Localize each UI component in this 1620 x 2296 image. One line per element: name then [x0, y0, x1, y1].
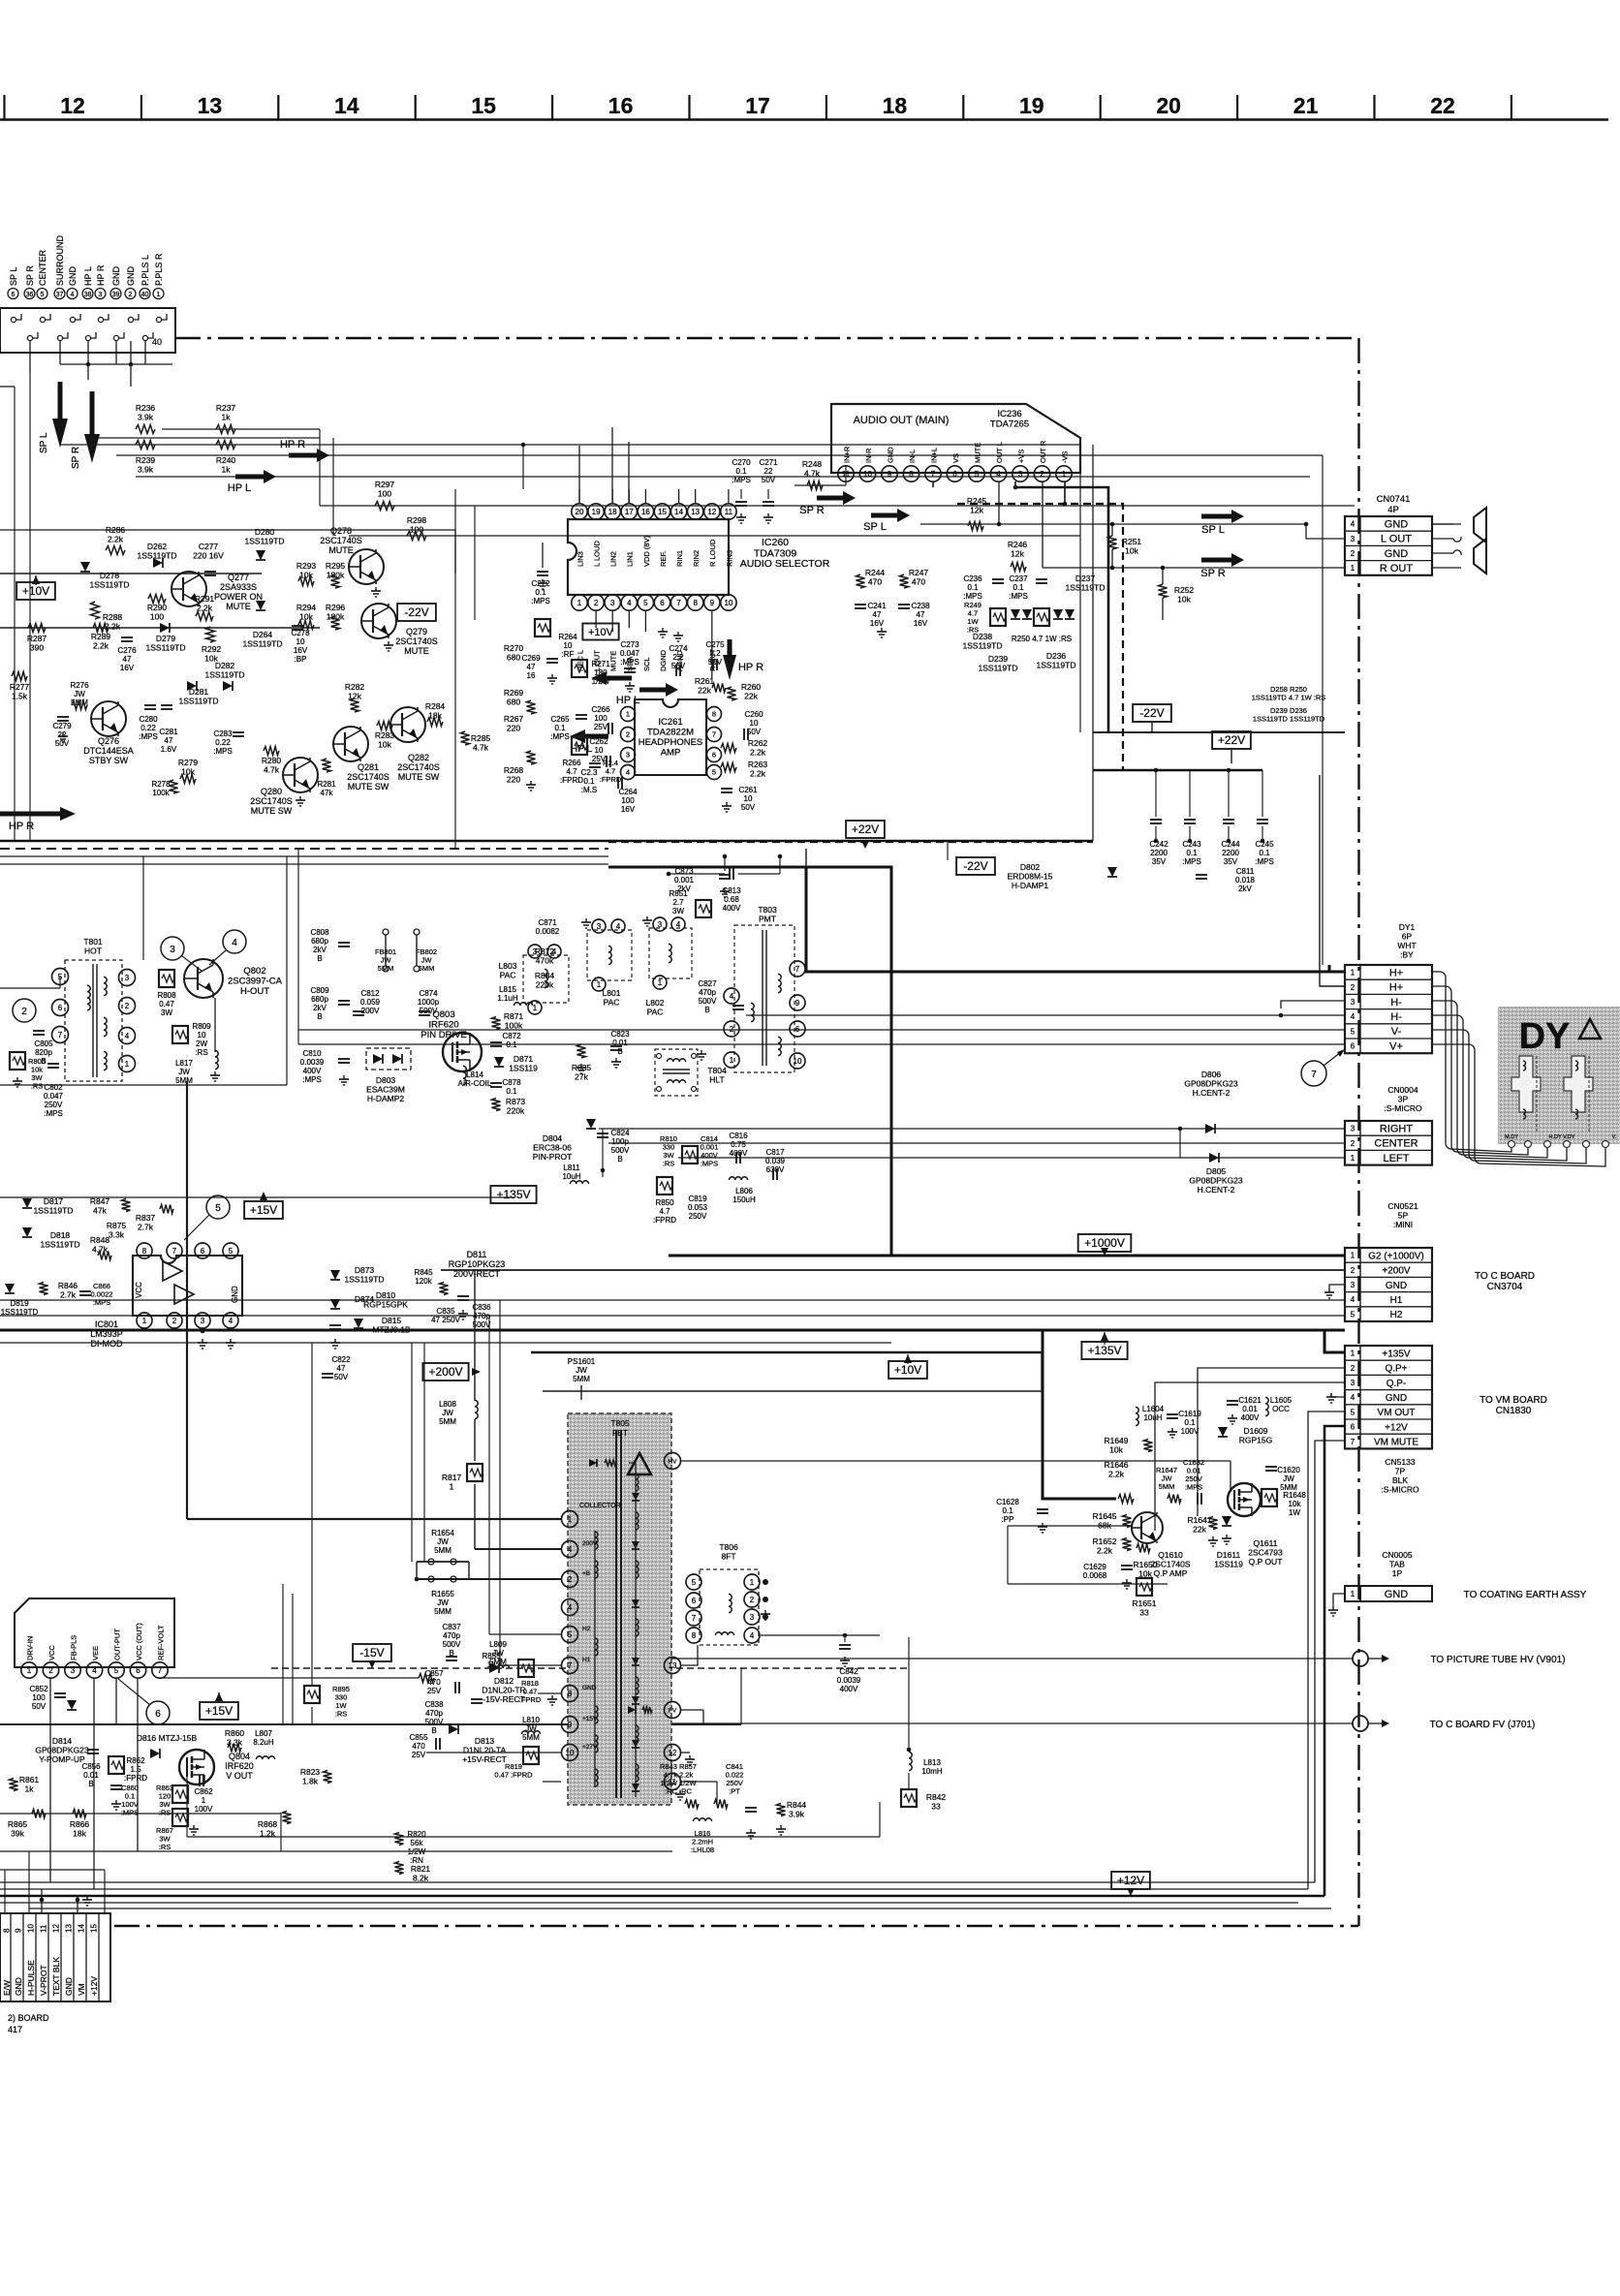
svg-text:7: 7: [931, 470, 936, 479]
svg-text:4: 4: [1351, 1393, 1355, 1402]
svg-text:HP L: HP L: [83, 266, 93, 286]
svg-text:-22V: -22V: [963, 859, 987, 873]
svg-text:R8231.8k: R8231.8k: [300, 1767, 321, 1786]
svg-text:COLLECTOR: COLLECTOR: [579, 1503, 621, 1509]
svg-text:H-PULSE: H-PULSE: [26, 1960, 36, 1996]
svg-text:6: 6: [136, 1666, 140, 1675]
transistor Q279 2SC1740S MUTE: [361, 604, 396, 638]
svg-text:R2854.7k: R2854.7k: [471, 733, 491, 753]
svg-text:1: 1: [626, 710, 630, 719]
wire H+ pin2 hook: [1320, 775, 1345, 986]
svg-text:SP R: SP R: [1200, 568, 1226, 579]
svg-text:2: 2: [1351, 1364, 1355, 1373]
svg-text:8: 8: [568, 1690, 573, 1698]
svg-text:CENTER: CENTER: [1374, 1138, 1417, 1150]
svg-text:1: 1: [533, 1004, 538, 1012]
T806 BFT: [700, 1569, 759, 1645]
svg-text:H-: H-: [1390, 997, 1402, 1008]
svg-text:7: 7: [676, 599, 681, 607]
svg-text:18: 18: [883, 93, 908, 118]
ruler scale bar: [0, 118, 1608, 121]
svg-text:GND: GND: [68, 266, 78, 287]
svg-text:2: 2: [594, 599, 599, 607]
svg-text:LIN1: LIN1: [626, 551, 635, 567]
svg-text:1: 1: [1351, 1590, 1355, 1598]
svg-text:3: 3: [750, 1613, 755, 1622]
wire Q804 area lines: [0, 1850, 672, 1852]
svg-text:+VS: +VS: [1016, 450, 1025, 463]
node 3 circled: [161, 937, 184, 960]
svg-text:C2800.22:MPS: C2800.22:MPS: [139, 715, 158, 741]
svg-text:C8710.0082: C8710.0082: [536, 918, 560, 936]
svg-text:GND: GND: [14, 1977, 23, 1996]
HP arrows left of IC261: [591, 671, 607, 685]
svg-text:1: 1: [1351, 1154, 1355, 1163]
svg-text:9: 9: [888, 470, 892, 479]
diode D279: [160, 623, 170, 633]
svg-text:15: 15: [90, 1924, 99, 1933]
svg-text:1: 1: [730, 1056, 734, 1065]
svg-text:SP R: SP R: [71, 447, 81, 469]
wire HP bus risers: [319, 429, 321, 506]
svg-text:5: 5: [975, 470, 980, 479]
svg-text:13: 13: [198, 93, 223, 118]
resistor R262: [721, 744, 736, 753]
svg-text:4: 4: [71, 292, 75, 298]
node -22V top: [397, 604, 436, 621]
SP R arrow at IC236: [817, 496, 846, 501]
svg-text:L8078.2uH: L8078.2uH: [253, 1729, 274, 1747]
wire V-OUT pin drops: [49, 1679, 51, 1882]
node -22V mid-right: [1133, 704, 1171, 722]
resistor R236: [136, 425, 155, 434]
wire SP bus lines: [92, 437, 320, 439]
svg-text:2: 2: [21, 1007, 27, 1017]
svg-text:8: 8: [909, 470, 914, 479]
svg-text:40: 40: [141, 292, 149, 298]
SP L arrow at IC236: [871, 513, 900, 518]
svg-text:6: 6: [201, 1247, 205, 1256]
svg-text:7: 7: [1351, 1438, 1355, 1446]
resistor R808: [159, 970, 174, 987]
svg-text:8: 8: [693, 599, 698, 607]
svg-text:5: 5: [692, 1578, 697, 1587]
wire +15V rail: [0, 1723, 741, 1725]
svg-text:AUDIO SELECTOR: AUDIO SELECTOR: [740, 558, 830, 570]
svg-text:5: 5: [41, 292, 45, 298]
svg-text:RIGHT: RIGHT: [1380, 1123, 1414, 1134]
speaker right: [1432, 552, 1453, 554]
svg-text:-22V: -22V: [1139, 706, 1164, 720]
HP L arrow IC260: [639, 688, 669, 693]
svg-text:HP R: HP R: [738, 662, 763, 673]
svg-text:LIN3: LIN3: [576, 551, 584, 567]
svg-text:REF-VOLT: REF-VOLT: [156, 1625, 165, 1660]
HP L arrow mid: [235, 475, 266, 480]
svg-text:4: 4: [1351, 520, 1355, 529]
svg-text:GND: GND: [1385, 548, 1409, 560]
svg-text:SCL: SCL: [642, 657, 651, 671]
wire +200V line: [441, 1269, 1345, 1271]
resistor R240: [216, 441, 235, 450]
resistor R862: [109, 1756, 124, 1774]
svg-text:4: 4: [552, 947, 557, 956]
svg-text:C2730.047:MPS: C2730.047:MPS: [620, 640, 640, 667]
svg-text:AUDIO OUT (MAIN): AUDIO OUT (MAIN): [854, 415, 950, 426]
transformer T801 HOT: [65, 960, 122, 1081]
svg-text:1: 1: [1351, 564, 1355, 573]
capacitor C242: [1150, 819, 1162, 821]
svg-text:C8660.0022:MPS: C8660.0022:MPS: [91, 1282, 113, 1307]
resistor R287: [28, 624, 46, 633]
wire V+ pin6: [298, 1043, 1345, 1045]
svg-text:Q.P+: Q.P+: [1385, 1364, 1407, 1375]
svg-text:H2: H2: [582, 1626, 591, 1632]
resistor R237: [216, 425, 235, 434]
svg-text:D1609RGP15G: D1609RGP15G: [1239, 1426, 1273, 1445]
capacitor C280 C281: [144, 704, 156, 706]
wire IC260 feed left: [91, 438, 93, 445]
ground CN0005: [1333, 1594, 1345, 1606]
wire T805 pin connections: [187, 1518, 561, 1520]
svg-text:3: 3: [658, 920, 663, 929]
capacitor C272: [537, 571, 548, 573]
svg-text:+12V: +12V: [1117, 1874, 1144, 1887]
wire verticals left deflect: [297, 849, 299, 1044]
svg-text:OUT L: OUT L: [995, 442, 1004, 463]
node +1CV: [582, 624, 618, 640]
svg-text:L806150uH: L806150uH: [732, 1187, 756, 1204]
inductor L802b PAC: [649, 928, 692, 978]
svg-text:R834220k: R834220k: [535, 971, 555, 990]
svg-text:+10V: +10V: [894, 1363, 921, 1377]
wire TO PICTURE TUBE HV: [669, 1658, 1353, 1660]
wire IC236 area verticals: [845, 465, 847, 485]
svg-text:9: 9: [710, 599, 715, 607]
capacitor C278: [292, 625, 303, 627]
diode D262: [153, 558, 163, 568]
svg-text:4: 4: [676, 920, 681, 929]
HP R arrow mid: [289, 453, 320, 458]
svg-text:8: 8: [692, 1631, 697, 1640]
svg-text:37: 37: [56, 292, 64, 298]
svg-text:IN+L: IN+L: [929, 448, 938, 463]
svg-text:1: 1: [577, 599, 582, 607]
svg-text:H1: H1: [582, 1657, 591, 1663]
svg-text:8: 8: [3, 1928, 12, 1933]
svg-text:L LOUD: L LOUD: [593, 541, 602, 567]
svg-text:4: 4: [229, 1317, 234, 1325]
svg-text:16: 16: [608, 93, 634, 118]
svg-text:SURROUND: SURROUND: [55, 234, 65, 286]
wire +10V path: [543, 1351, 1042, 1391]
svg-text:GND: GND: [1385, 1589, 1409, 1600]
T805 right pins: [665, 1453, 681, 1470]
svg-text:TO COATING EARTH ASSY: TO COATING EARTH ASSY: [1464, 1590, 1587, 1600]
inductor L816: [693, 1818, 711, 1821]
inductor L806: [729, 1177, 747, 1180]
svg-text:Q804IRF620V OUT: Q804IRF620V OUT: [225, 1752, 254, 1781]
connector VM 7P: [1345, 1346, 1432, 1448]
svg-text:R8462.7k: R8462.7k: [58, 1281, 78, 1300]
svg-text:6: 6: [58, 1004, 63, 1012]
gnd IC801: [202, 1339, 203, 1343]
svg-text:VEE: VEE: [91, 1646, 100, 1660]
wire +135V drop to QP: [1043, 1330, 1116, 1499]
wire 22V rails: [1093, 731, 1345, 733]
svg-text:-15V: -15V: [359, 1646, 384, 1660]
svg-text:R2892.2k: R2892.2k: [91, 632, 111, 651]
svg-text:SP R: SP R: [25, 265, 35, 286]
ground CN0521: [1329, 1285, 1345, 1288]
inductor L802 PAC: [587, 930, 632, 980]
svg-text:4: 4: [616, 922, 621, 931]
wire left-mid verticals: [411, 1343, 413, 1562]
svg-text:2) BOARD: 2) BOARD: [8, 2013, 49, 2023]
svg-text:18: 18: [608, 508, 617, 516]
svg-text:5: 5: [643, 599, 648, 607]
svg-text:6: 6: [952, 470, 957, 479]
svg-text:5: 5: [1351, 1408, 1355, 1416]
svg-text:4: 4: [568, 1545, 573, 1554]
resistor R809: [172, 1026, 188, 1043]
svg-text:-VS: -VS: [1060, 450, 1069, 463]
svg-text:8: 8: [142, 1247, 147, 1256]
wire FBT bottom link: [186, 1773, 188, 1837]
svg-text:1: 1: [568, 1515, 573, 1524]
svg-text:7: 7: [158, 1666, 163, 1675]
svg-text:R843 R8574.7k 2.2k1/2W 1/2W:RC: R843 R8574.7k 2.2k1/2W 1/2W:RC :RC: [660, 1762, 697, 1796]
svg-text:CENTER: CENTER: [38, 249, 47, 286]
svg-text:VCC: VCC: [135, 1282, 143, 1298]
svg-text:T805: T805: [610, 1418, 630, 1428]
connector CN (A board) 40P: [0, 308, 175, 353]
svg-text:RIN3: RIN3: [725, 550, 733, 567]
svg-text:3: 3: [1351, 1379, 1355, 1387]
svg-text:7: 7: [795, 965, 800, 974]
wire +1000V: [669, 1255, 1345, 1257]
svg-text:D816 MTZJ-15B: D816 MTZJ-15B: [137, 1733, 198, 1743]
inductor L801 PAC: [523, 955, 569, 1003]
svg-text:2: 2: [1351, 1266, 1355, 1275]
wire QP left feeds: [1008, 1525, 1132, 1527]
node 7 circled: [1301, 1061, 1326, 1086]
svg-text:R2363.9k: R2363.9k: [136, 403, 156, 422]
svg-text:+22V: +22V: [852, 822, 879, 836]
node +22V lower-left: [846, 821, 885, 838]
svg-text:4: 4: [730, 992, 734, 1001]
svg-text:4: 4: [568, 1603, 573, 1612]
capacitor C245: [1257, 819, 1268, 821]
svg-text:SP L: SP L: [1201, 524, 1225, 536]
svg-text:M.DY: M.DY: [1505, 1134, 1518, 1140]
capacitor C842: [761, 1634, 880, 1636]
svg-text:20: 20: [576, 508, 584, 516]
svg-text:14: 14: [334, 93, 359, 118]
node -15V: [353, 1644, 391, 1661]
svg-text:+15V: +15V: [250, 1203, 277, 1217]
svg-text:13: 13: [669, 1661, 677, 1670]
IC261 TDA2822M HEADPHONES AMP: [635, 699, 706, 775]
connector bottom 15P: [0, 1913, 110, 2001]
svg-text:9: 9: [795, 999, 800, 1008]
svg-text:C8100.0039400V:MPS: C8100.0039400V:MPS: [300, 1049, 325, 1084]
svg-text:3: 3: [1351, 1281, 1355, 1289]
svg-text:P.PLS R: P.PLS R: [154, 253, 164, 286]
svg-text:19: 19: [1019, 93, 1044, 118]
svg-text:3: 3: [99, 292, 103, 298]
svg-text:6: 6: [712, 751, 716, 760]
svg-text:V.: V.: [1612, 1134, 1617, 1140]
svg-text:TEXT BLK: TEXT BLK: [51, 1957, 61, 1996]
node +22V mid-right: [1212, 731, 1251, 749]
svg-text:13: 13: [65, 1924, 74, 1933]
svg-text:R2912.2k: R2912.2k: [195, 594, 215, 613]
diode D264: [256, 601, 265, 610]
svg-text:HP R: HP R: [96, 264, 106, 286]
node 2 circled: [13, 999, 36, 1022]
svg-text:GND: GND: [111, 266, 121, 287]
svg-text:+135V: +135V: [496, 1188, 530, 1201]
svg-text:3: 3: [71, 1666, 76, 1675]
svg-text:OUT-PUT: OUT-PUT: [112, 1629, 121, 1660]
svg-text:7: 7: [692, 1614, 697, 1623]
wire +135V bus: [0, 1329, 1345, 1332]
svg-text:HP L: HP L: [228, 482, 251, 494]
SP R arrow to CN0741: [1201, 558, 1234, 563]
svg-text:SP L: SP L: [863, 521, 887, 533]
svg-text:GND: GND: [126, 266, 136, 287]
resistor R281: [323, 759, 331, 772]
svg-text:TO PICTURE TUBE HV (V901): TO PICTURE TUBE HV (V901): [1430, 1655, 1565, 1665]
HP R arrow IC260: [723, 655, 736, 680]
svg-text:E/W: E/W: [2, 1980, 12, 1996]
node +1000V: [1078, 1234, 1132, 1252]
svg-text:17: 17: [745, 93, 770, 118]
capacitor C244: [1223, 819, 1234, 821]
svg-text:TO C BOARD FV (J701): TO C BOARD FV (J701): [1430, 1720, 1536, 1730]
wire V- pin5: [298, 1029, 1345, 1031]
svg-text:VDD (8V): VDD (8V): [642, 535, 651, 567]
node +15V mid: [244, 1201, 283, 1219]
resistor R251: [1108, 536, 1117, 549]
node 6 circled: [146, 1701, 170, 1724]
svg-text:GND: GND: [1386, 1393, 1407, 1404]
op-amp IC236 TDA7265 AUDIO OUT (MAIN): [831, 404, 1080, 473]
svg-text:3: 3: [1018, 470, 1023, 479]
svg-text:9: 9: [568, 1721, 573, 1729]
svg-text:DGND: DGND: [659, 649, 668, 671]
svg-text:R2862.2k: R2862.2k: [106, 525, 126, 544]
mosfet Q804 IRF620 V OUT: [179, 1750, 214, 1784]
resistor R271: [572, 660, 587, 677]
svg-text:5: 5: [229, 1247, 234, 1256]
transformer T804 HLT: [655, 1049, 698, 1096]
wire H+ thick: [806, 867, 1329, 972]
resistor R292: [206, 627, 215, 642]
svg-text:CN0741: CN0741: [1377, 494, 1411, 505]
svg-text:MUTE: MUTE: [609, 651, 618, 671]
svg-text:14: 14: [674, 508, 683, 516]
resistor R239: [136, 441, 155, 450]
svg-text:IN-R: IN-R: [864, 448, 873, 463]
connector pin labels rotated: [8, 289, 18, 299]
transformer T805 FBT block: [568, 1413, 671, 1805]
svg-text:1: 1: [658, 978, 663, 987]
svg-text:+135V: +135V: [1087, 1344, 1121, 1357]
HP R arrow left edge: [0, 812, 68, 817]
svg-text:4: 4: [1351, 1012, 1355, 1021]
svg-text:2: 2: [1351, 549, 1355, 558]
svg-text:10: 10: [566, 1749, 575, 1757]
wire DY harness: [1432, 972, 1511, 1152]
svg-text:H2: H2: [1390, 1310, 1403, 1320]
svg-text:+10V: +10V: [22, 584, 49, 598]
svg-text:3: 3: [1351, 1125, 1355, 1133]
svg-text:G2 (+1000V): G2 (+1000V): [1368, 1251, 1424, 1261]
svg-text:GND: GND: [1385, 518, 1409, 530]
wire H1 H2 lines: [0, 1299, 1345, 1301]
svg-text:3: 3: [170, 945, 175, 955]
op-amp V-OUT IC pins: [15, 1598, 174, 1667]
svg-text:7: 7: [712, 730, 716, 739]
wire IC236 supply lines: [1015, 487, 1108, 732]
resistor R818: [518, 1660, 534, 1677]
node +200V label left: [422, 1363, 468, 1381]
svg-text:+135V: +135V: [1382, 1349, 1411, 1359]
svg-text:12: 12: [60, 93, 85, 118]
svg-text:15: 15: [658, 508, 667, 516]
svg-text:R2622.2k: R2622.2k: [748, 738, 768, 758]
svg-text:C8130.68400V: C8130.68400V: [722, 886, 741, 913]
svg-text:V+: V+: [1389, 1040, 1403, 1052]
svg-text:DRV-IN: DRV-IN: [25, 1636, 34, 1660]
svg-text:2: 2: [1040, 470, 1044, 479]
svg-text:R250 4.7 1W :RS: R250 4.7 1W :RS: [1012, 635, 1072, 643]
svg-text:5: 5: [1351, 1310, 1355, 1319]
svg-text:20: 20: [1156, 93, 1181, 118]
svg-text:RIN2: RIN2: [692, 550, 701, 567]
svg-text:VM OUT: VM OUT: [1378, 1408, 1416, 1418]
svg-text:22: 22: [1430, 93, 1455, 118]
resistor R1650: [1137, 1544, 1150, 1553]
svg-text:VCC: VCC: [47, 1645, 56, 1660]
svg-text:GND: GND: [231, 1286, 239, 1303]
svg-text:1: 1: [157, 292, 161, 298]
svg-text:C8160.75400V: C8160.75400V: [729, 1132, 748, 1158]
speaker left: [1432, 523, 1461, 525]
wire mid column verticals: [607, 842, 609, 867]
wire CN0741 feeds: [1432, 523, 1453, 525]
mosfet Q803 IRF620 PIN DRIVE: [443, 1033, 482, 1071]
svg-text:IC801LM393PDI-MOD: IC801LM393PDI-MOD: [90, 1319, 123, 1349]
svg-text:C8190.053250V: C8190.053250V: [688, 1195, 708, 1221]
svg-text:4: 4: [125, 1032, 130, 1040]
svg-text:1: 1: [27, 1666, 32, 1675]
svg-text:Q.P-: Q.P-: [1386, 1379, 1407, 1389]
svg-text:2: 2: [129, 292, 133, 298]
svg-text:2: 2: [626, 730, 630, 739]
svg-text:SP L: SP L: [39, 432, 49, 453]
svg-text:417: 417: [8, 2025, 22, 2034]
svg-text:10: 10: [724, 599, 732, 607]
svg-text:9: 9: [15, 1928, 23, 1933]
svg-text:C8420.0039400V: C8420.0039400V: [837, 1667, 861, 1693]
svg-text:R OUT: R OUT: [1380, 563, 1414, 574]
resistor R817: [467, 1464, 483, 1481]
svg-text:VS: VS: [951, 453, 960, 463]
capacitor C279: [57, 716, 69, 718]
